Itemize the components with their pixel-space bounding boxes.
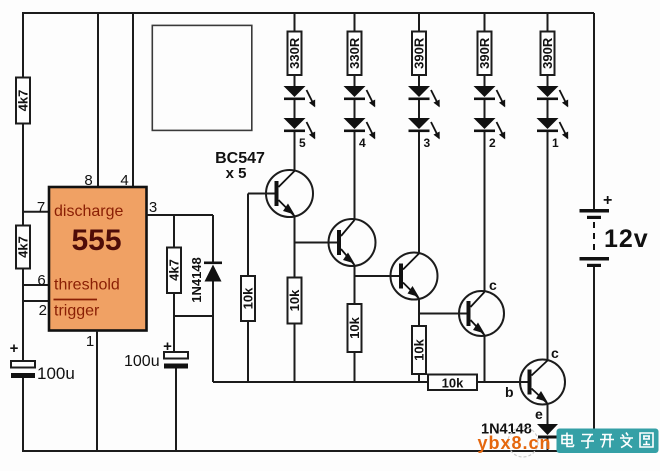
svg-text:4: 4 bbox=[120, 172, 128, 189]
svg-text:330R: 330R bbox=[287, 37, 302, 69]
svg-text:1: 1 bbox=[552, 136, 559, 150]
svg-text:c: c bbox=[551, 345, 559, 361]
svg-text:discharge: discharge bbox=[54, 203, 123, 220]
svg-text:trigger: trigger bbox=[54, 303, 100, 320]
svg-text:2: 2 bbox=[489, 136, 496, 150]
svg-text:2: 2 bbox=[39, 302, 47, 319]
svg-text:c: c bbox=[489, 277, 497, 293]
svg-text:12v: 12v bbox=[604, 225, 649, 253]
svg-text:10k: 10k bbox=[442, 376, 464, 391]
svg-text:ybx8.cn: ybx8.cn bbox=[478, 433, 552, 453]
svg-text:+: + bbox=[603, 192, 612, 209]
svg-text:330R: 330R bbox=[347, 37, 362, 69]
svg-text:threshold: threshold bbox=[54, 277, 120, 294]
svg-text:1: 1 bbox=[86, 333, 94, 350]
svg-text:390R: 390R bbox=[412, 37, 427, 69]
svg-text:4: 4 bbox=[359, 136, 366, 150]
svg-text:100u: 100u bbox=[37, 364, 75, 383]
svg-text:4k7: 4k7 bbox=[16, 236, 31, 258]
svg-text:+: + bbox=[10, 340, 19, 357]
svg-text:8: 8 bbox=[84, 172, 92, 189]
svg-text:10k: 10k bbox=[412, 338, 427, 360]
svg-text:100u: 100u bbox=[124, 353, 160, 370]
svg-text:390R: 390R bbox=[477, 37, 492, 69]
svg-text:10k: 10k bbox=[287, 289, 302, 311]
svg-text:390R: 390R bbox=[540, 37, 555, 69]
svg-text:4k7: 4k7 bbox=[16, 90, 31, 112]
svg-text:10k: 10k bbox=[347, 316, 362, 338]
svg-text:5: 5 bbox=[299, 136, 306, 150]
svg-text:b: b bbox=[505, 384, 514, 400]
svg-text:3: 3 bbox=[149, 199, 157, 216]
svg-text:4k7: 4k7 bbox=[167, 259, 182, 281]
svg-text:e: e bbox=[535, 406, 543, 422]
svg-text:7: 7 bbox=[37, 199, 45, 216]
svg-text:3: 3 bbox=[424, 136, 431, 150]
svg-text:10k: 10k bbox=[241, 287, 256, 309]
svg-text:x 5: x 5 bbox=[226, 165, 247, 182]
svg-text:555: 555 bbox=[71, 224, 121, 257]
svg-text:6: 6 bbox=[37, 272, 45, 289]
svg-text:1N4148: 1N4148 bbox=[189, 257, 204, 303]
